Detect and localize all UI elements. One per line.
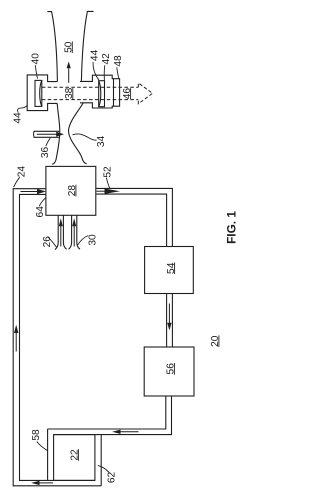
label 30 <box>88 234 99 246</box>
leader 42 <box>103 65 106 80</box>
svg-text:58: 58 <box>31 429 42 441</box>
box 22 <box>54 435 95 481</box>
label 56 <box>166 363 177 375</box>
intake pipe 26 <box>55 215 58 249</box>
left bearing housing 40 outline <box>27 75 57 111</box>
box 54 <box>145 247 194 294</box>
arrow down 54 to 56 <box>168 304 170 324</box>
leader 44 lower-left <box>18 106 28 113</box>
label 62 <box>106 472 117 484</box>
label 40 <box>31 53 42 65</box>
label 44 upper <box>90 49 101 61</box>
label 24 <box>16 166 27 178</box>
arrow 52 <box>97 190 106 192</box>
arrow left 56 to 22 <box>121 431 139 433</box>
arrow 24 into box <box>21 191 39 193</box>
svg-text:48: 48 <box>113 55 124 67</box>
svg-text:30: 30 <box>88 234 99 246</box>
label 28 <box>67 185 78 197</box>
svg-text:34: 34 <box>96 136 107 148</box>
svg-text:52: 52 <box>102 166 113 178</box>
arrow left in bottom pipe <box>40 482 54 484</box>
label 46 <box>122 88 133 100</box>
arrow in pipe 30 <box>73 226 75 247</box>
pipe 56 to 22 inner wall <box>48 396 166 429</box>
svg-text:54: 54 <box>166 262 177 274</box>
leader 44 upper <box>93 62 99 80</box>
leader 48 <box>117 67 119 78</box>
leader 62 <box>98 465 109 472</box>
label FIG. 1 <box>225 211 239 244</box>
arrow 50 flow up <box>68 68 70 83</box>
svg-text:22: 22 <box>70 449 81 461</box>
svg-text:20: 20 <box>210 335 221 347</box>
leader 40 <box>35 65 37 78</box>
arrow 36 <box>37 133 57 135</box>
label 50 <box>64 41 75 53</box>
label 38 <box>64 87 75 99</box>
label 52 <box>102 166 113 178</box>
arrow in pipe 26 <box>60 226 62 247</box>
svg-text:36: 36 <box>40 147 51 159</box>
svg-text:46: 46 <box>122 88 133 100</box>
leader 34 <box>73 134 97 140</box>
svg-text:40: 40 <box>31 53 42 65</box>
label 58 <box>31 429 42 441</box>
funnel 34 right wall <box>69 103 87 164</box>
label 42 <box>101 53 112 65</box>
leader 58 <box>37 442 48 451</box>
label 26 <box>42 236 53 248</box>
outlet pipe 52 inner wall <box>96 194 167 246</box>
label 54 <box>166 262 177 274</box>
label 48 <box>113 55 124 67</box>
svg-text:FIG. 1: FIG. 1 <box>225 211 239 244</box>
leader 26 <box>48 237 57 247</box>
duct left wall <box>47 12 57 82</box>
svg-text:62: 62 <box>106 472 117 484</box>
label 44 lower-left <box>13 112 24 124</box>
pipe 54 to 56 <box>166 294 168 348</box>
intake pipe 30 <box>69 215 72 249</box>
right bearing housing outline <box>80 75 114 81</box>
svg-text:42: 42 <box>101 53 112 65</box>
svg-text:56: 56 <box>166 363 177 375</box>
right bearing 44 <box>99 81 105 107</box>
funnel 34 left wall <box>52 104 60 165</box>
pipe 56 to 22 outer wall <box>54 396 172 435</box>
shaft 38 dashed centerlines <box>42 86 139 88</box>
leader 24 <box>14 177 20 187</box>
end cap 48 <box>114 79 120 107</box>
svg-text:44: 44 <box>13 112 24 124</box>
dashed output arrow 46 <box>138 83 152 104</box>
left bearing 44 <box>35 80 42 106</box>
svg-text:28: 28 <box>67 185 78 197</box>
left loop pipe outer wall <box>13 189 101 486</box>
enclosure 58 right wall <box>100 435 102 486</box>
enclosure 58 left wall <box>47 429 49 480</box>
svg-text:64: 64 <box>35 206 46 218</box>
svg-text:26: 26 <box>42 236 53 248</box>
svg-text:44: 44 <box>90 49 101 61</box>
leader 64 <box>39 198 45 207</box>
box 56 <box>144 347 194 396</box>
box 28 <box>46 166 96 215</box>
label 36 <box>40 147 51 159</box>
svg-text:24: 24 <box>16 166 27 178</box>
label 22 <box>70 449 81 461</box>
leader 30 <box>78 236 89 246</box>
arrow up in left loop pipe <box>15 333 17 352</box>
label 20 <box>210 335 221 347</box>
left loop pipe inner wall <box>20 194 95 480</box>
svg-text:38: 38 <box>64 87 75 99</box>
svg-text:50: 50 <box>64 41 75 53</box>
outlet pipe 52 outer wall <box>96 188 173 246</box>
label 64 <box>35 206 46 218</box>
injector tube 36 <box>33 131 36 137</box>
label 34 <box>96 136 107 148</box>
leader 52 <box>106 178 109 189</box>
duct right wall <box>81 11 93 81</box>
leader 36 <box>46 138 50 146</box>
